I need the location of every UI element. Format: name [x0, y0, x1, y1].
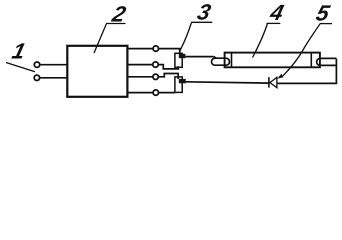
- fluorescent lamp 4 (tube body): [225, 53, 320, 68]
- ballast box 2: [67, 46, 127, 97]
- wire w2 from box: [128, 64, 152, 66]
- contact circle c4: [153, 90, 158, 95]
- left electrode bar: [231, 53, 233, 66]
- wire w3 continuation with jog: [158, 74, 178, 80]
- leader line for label 3: [180, 23, 192, 51]
- wire T1 to box: [40, 64, 68, 66]
- wire w4 from box: [128, 92, 153, 94]
- right filament capsule (open right): [317, 58, 337, 65]
- wire w4 continuation: [159, 92, 176, 94]
- wire T2 to box: [40, 77, 68, 79]
- terminal T1: [34, 62, 39, 67]
- connector socket rect2: [175, 77, 182, 93]
- connector pin1 (filled): [179, 54, 186, 58]
- contact circle c3: [153, 74, 158, 79]
- contact circle c1: [153, 46, 158, 51]
- label 2 underline: [106, 23, 126, 25]
- leader line for label 5 with arrow: [283, 24, 320, 76]
- wire into left capsule: [214, 57, 217, 59]
- connector socket rect1: [175, 53, 182, 67]
- wire w1 from box: [128, 48, 153, 50]
- wire w1 continuation: [159, 49, 180, 55]
- left filament capsule: [212, 58, 230, 65]
- diode 5: triangle: [270, 77, 277, 87]
- wrap-around wire: right side down then bottom towards diode: [277, 59, 336, 84]
- wire w3 from box: [128, 76, 153, 78]
- label 5 underline: [320, 23, 332, 25]
- contact circle c2: [153, 62, 158, 67]
- label 4 underline: [267, 22, 281, 24]
- label 3 underline: [191, 21, 212, 23]
- diode 5: cathode bar: [268, 77, 270, 87]
- right electrode bar: [310, 53, 312, 66]
- exit wire from pin1: [185, 56, 213, 58]
- connector pin2 (filled): [179, 79, 186, 83]
- arrowhead of leader 5: [277, 74, 283, 79]
- leader line for label 4: [253, 24, 268, 58]
- leader line for label 1: [6, 63, 35, 72]
- wire w2 continuation with jog: [158, 65, 178, 69]
- leader line for label 2: [94, 24, 106, 53]
- exit wire from pin2 (bottom wire to diode): [186, 82, 269, 83]
- terminal T2: [34, 75, 39, 80]
